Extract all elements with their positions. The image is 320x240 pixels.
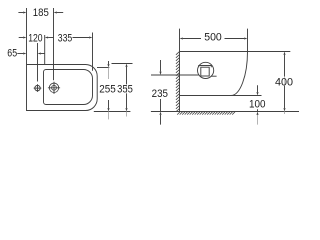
wall hatching <box>176 52 179 112</box>
extension line L4 front rim <box>92 33 94 71</box>
extension line L2 small hole <box>37 43 39 82</box>
side view bottom edge + right extension <box>180 95 262 97</box>
dim 235 top arrow <box>159 72 161 75</box>
side view front curve <box>231 52 248 96</box>
dim 100 top arrow <box>256 92 258 95</box>
dim 185 left arrow <box>23 11 26 13</box>
inlet symbol lid <box>199 66 212 68</box>
dim 65 second arrow <box>38 52 41 54</box>
ext line B (top ref of 355) <box>112 63 133 65</box>
bidet outer outline (plan view) <box>27 65 98 111</box>
dim 100 mid segment <box>257 109 259 111</box>
dim 355 top arrow <box>125 64 127 67</box>
dim 100 bottom tail <box>257 115 259 125</box>
floor hatching <box>177 112 235 115</box>
dim 255 bottom arrow <box>107 108 109 111</box>
extension line basin left <box>44 35 46 65</box>
dim 120 right arrow <box>45 36 48 38</box>
extension line L1 back edge <box>26 8 28 65</box>
inlet symbol box <box>201 67 209 76</box>
small hole crosshair <box>34 84 42 92</box>
dim 400 bottom tail <box>284 112 286 115</box>
dim 235 bottom tail <box>160 115 162 125</box>
dim 500 ext right <box>247 29 249 53</box>
svg-text:65: 65 <box>7 48 17 60</box>
dim 120 left tail <box>19 37 23 39</box>
dim 400 top arrow <box>283 52 285 55</box>
big tap hole outer <box>49 83 58 92</box>
dim 255 line V1 top <box>108 61 110 64</box>
svg-text:500: 500 <box>204 32 222 44</box>
svg-text:355: 355 <box>117 84 133 96</box>
dim 120 left arrow <box>23 36 26 38</box>
dim 400 lower segment <box>284 86 286 108</box>
svg-text:335: 335 <box>58 33 73 45</box>
svg-text:235: 235 <box>152 88 168 100</box>
dim 500 line left <box>183 38 201 40</box>
extension line L3 big hole <box>53 8 55 80</box>
dim 255 bottom tail <box>108 112 110 120</box>
dim 65 right-pointing arrow <box>23 52 26 54</box>
svg-text:400: 400 <box>275 77 293 89</box>
dim 500 left arrow <box>180 37 183 39</box>
svg-text:120: 120 <box>28 33 42 45</box>
dim 120 right tail <box>48 37 53 39</box>
dim 185 right tail <box>57 12 63 14</box>
water inlet circle <box>198 62 214 78</box>
dim 235 lower segment <box>160 99 162 112</box>
dim 500 line right <box>225 38 245 40</box>
bidet inner basin outline <box>44 70 93 105</box>
inlet side tick <box>211 75 217 77</box>
dim 355 line V2 bottom <box>126 94 128 109</box>
dim 65 line <box>17 53 23 55</box>
svg-text:185: 185 <box>33 7 49 19</box>
svg-text:255: 255 <box>99 84 116 96</box>
big tap hole inner <box>52 85 57 90</box>
dim 400 upper segment <box>284 55 286 77</box>
dim 235 top segment <box>160 60 162 72</box>
dim 355 bottom arrow <box>125 108 127 111</box>
dim 500 right arrow <box>244 37 247 39</box>
dim 100 top segment <box>257 85 259 92</box>
ext line A (top ref of 255) <box>97 67 109 69</box>
dim 65 second tail <box>41 53 45 55</box>
dim 355 faint through text <box>126 84 128 93</box>
floor line <box>151 111 299 113</box>
dim 185 right arrow <box>54 11 57 13</box>
dim 185 left tail <box>18 12 23 14</box>
wall line <box>179 29 181 112</box>
dim 355 line V2 top <box>126 67 128 85</box>
ext line C (bottom ref of 255/355) <box>94 111 131 113</box>
dim 100 bottom arrow <box>256 112 258 115</box>
dim 355 bottom tail <box>126 112 128 117</box>
dim 235 bottom arrow <box>159 112 161 115</box>
dim 255 top arrow <box>107 64 109 67</box>
dim 400 bottom arrow <box>283 108 285 111</box>
dim 335 line <box>73 37 90 39</box>
dim 400 faint through text <box>284 77 286 86</box>
side view top edge + right extension <box>180 51 291 53</box>
small tap hole <box>35 85 40 90</box>
dim 255 line V1 bottom <box>108 100 110 108</box>
big hole crosshair <box>48 82 60 94</box>
dim 255 overshoot <box>108 68 110 80</box>
svg-text:100: 100 <box>249 98 266 110</box>
dim 235 ext to inlet <box>151 74 199 76</box>
dim 335 right arrow <box>89 36 92 38</box>
